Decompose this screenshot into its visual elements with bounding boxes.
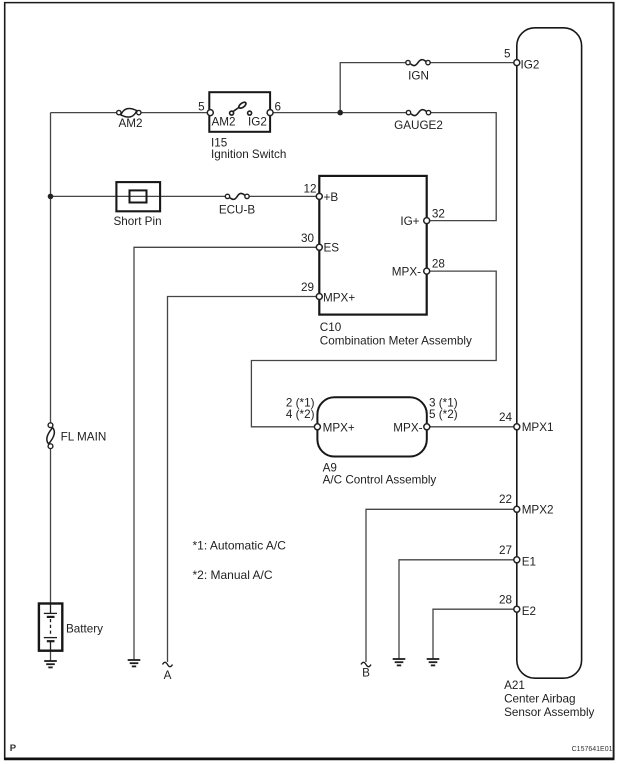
pin 5 <box>207 110 213 116</box>
pin 5 IG2 <box>514 60 520 66</box>
svg-text:*2: Manual A/C: *2: Manual A/C <box>193 568 273 582</box>
svg-text:24: 24 <box>499 411 513 424</box>
svg-text:Short Pin: Short Pin <box>114 215 162 228</box>
svg-text:IGN: IGN <box>408 70 429 83</box>
svg-text:5: 5 <box>198 101 205 114</box>
wire Short Pin / ECU-B row <box>51 195 320 197</box>
svg-text:A/C Control Assembly: A/C Control Assembly <box>323 473 437 486</box>
svg-text:5: 5 <box>504 48 511 61</box>
border frame <box>4 2 614 4</box>
junction IGN/GAUGE2 <box>337 110 343 116</box>
svg-text:Center Airbag: Center Airbag <box>504 693 575 706</box>
pin 30 ES <box>316 244 322 250</box>
switch contact IG2 <box>248 111 252 115</box>
connector A <box>163 662 173 682</box>
switch contact AM2 <box>230 111 234 115</box>
svg-text:MPX2: MPX2 <box>522 504 554 517</box>
svg-text:E1: E1 <box>522 556 536 569</box>
svg-text:28: 28 <box>499 594 512 607</box>
wire MPX- to A9 MPX+ <box>251 271 496 427</box>
svg-text:Battery: Battery <box>66 623 103 636</box>
fuse ECU-B <box>219 193 256 216</box>
combination meter C10 box <box>301 176 472 347</box>
wire AM2 feed: left bus to ignition switch pin 5 <box>51 112 211 114</box>
svg-text:C157641E01: C157641E01 <box>572 746 613 753</box>
battery <box>39 604 103 651</box>
wire E2 to ground <box>433 609 517 659</box>
connector B <box>361 662 371 679</box>
svg-text:Sensor Assembly: Sensor Assembly <box>504 706 594 719</box>
wire E1 to ground <box>399 560 517 659</box>
A/C control A9 box <box>286 397 458 487</box>
pin 12 +B <box>316 193 322 199</box>
ground E2 <box>427 659 440 665</box>
svg-text:IG2: IG2 <box>521 58 540 71</box>
svg-text:MPX1: MPX1 <box>522 421 554 434</box>
svg-text:P: P <box>10 743 17 754</box>
wire MPX+ to connector A <box>168 297 320 663</box>
pin 27 E1 <box>514 557 520 563</box>
fusible link AM2 <box>117 108 143 130</box>
wire A9 MPX- to MPX1 <box>427 426 517 428</box>
ground below battery <box>44 661 57 667</box>
pin 28 E2 <box>514 606 520 612</box>
svg-text:Ignition Switch: Ignition Switch <box>211 148 286 161</box>
center airbag sensor A21 box <box>499 28 595 719</box>
svg-text:B: B <box>362 666 370 679</box>
svg-text:32: 32 <box>432 208 445 221</box>
svg-text:*1: Automatic A/C: *1: Automatic A/C <box>193 539 287 553</box>
short pin component <box>114 182 162 228</box>
svg-text:ECU-B: ECU-B <box>219 204 256 217</box>
pin 24 MPX1 <box>514 424 520 430</box>
svg-text:+B: +B <box>324 191 339 204</box>
ground E1 <box>393 659 406 665</box>
svg-text:IG2: IG2 <box>248 116 267 129</box>
pin MPX+ <box>314 424 320 430</box>
svg-text:MPX+: MPX+ <box>323 422 355 435</box>
wire ES to ground <box>134 247 319 660</box>
fuse GAUGE2 <box>394 110 443 132</box>
svg-text:4 (*2): 4 (*2) <box>286 408 315 421</box>
svg-text:A: A <box>164 669 172 682</box>
svg-text:28: 28 <box>432 258 445 271</box>
wire IGN branch to IG2 <box>340 63 517 113</box>
wire ignition pin 6 to GAUGE2 to IG+ <box>270 113 496 221</box>
svg-text:5 (*2): 5 (*2) <box>429 408 458 421</box>
svg-text:12: 12 <box>303 183 316 196</box>
wire left battery bus vertical <box>50 113 52 661</box>
switch lever <box>233 108 239 112</box>
svg-text:GAUGE2: GAUGE2 <box>394 119 443 132</box>
svg-text:22: 22 <box>499 493 512 506</box>
svg-text:MPX-: MPX- <box>392 266 421 279</box>
svg-text:AM2: AM2 <box>212 116 236 129</box>
ignition switch I15 box <box>198 92 286 161</box>
pin 22 MPX2 <box>514 506 520 512</box>
svg-text:FL MAIN: FL MAIN <box>61 431 107 444</box>
pin 6 <box>267 110 273 116</box>
junction bus/short-pin <box>48 194 54 200</box>
fusible link FL MAIN <box>47 423 106 449</box>
svg-text:27: 27 <box>499 544 512 557</box>
svg-text:ES: ES <box>324 242 340 255</box>
svg-text:E2: E2 <box>522 605 536 618</box>
svg-text:6: 6 <box>275 101 282 114</box>
pin MPX- <box>424 424 430 430</box>
pin 32 IG+ <box>424 218 430 224</box>
svg-text:C10: C10 <box>320 321 342 334</box>
svg-text:MPX-: MPX- <box>393 422 422 435</box>
svg-text:29: 29 <box>301 281 314 294</box>
svg-text:AM2: AM2 <box>118 117 142 130</box>
svg-text:Combination Meter Assembly: Combination Meter Assembly <box>320 334 472 347</box>
svg-text:MPX+: MPX+ <box>323 292 355 305</box>
ground ES wire <box>128 660 141 666</box>
pin 28 MPX- <box>424 268 430 274</box>
wire MPX2 to connector B <box>366 509 517 662</box>
svg-text:A21: A21 <box>504 679 525 692</box>
svg-text:IG+: IG+ <box>400 215 419 228</box>
svg-text:30: 30 <box>301 232 315 245</box>
fuse IGN <box>406 60 430 83</box>
pin 29 MPX+ <box>316 294 322 300</box>
